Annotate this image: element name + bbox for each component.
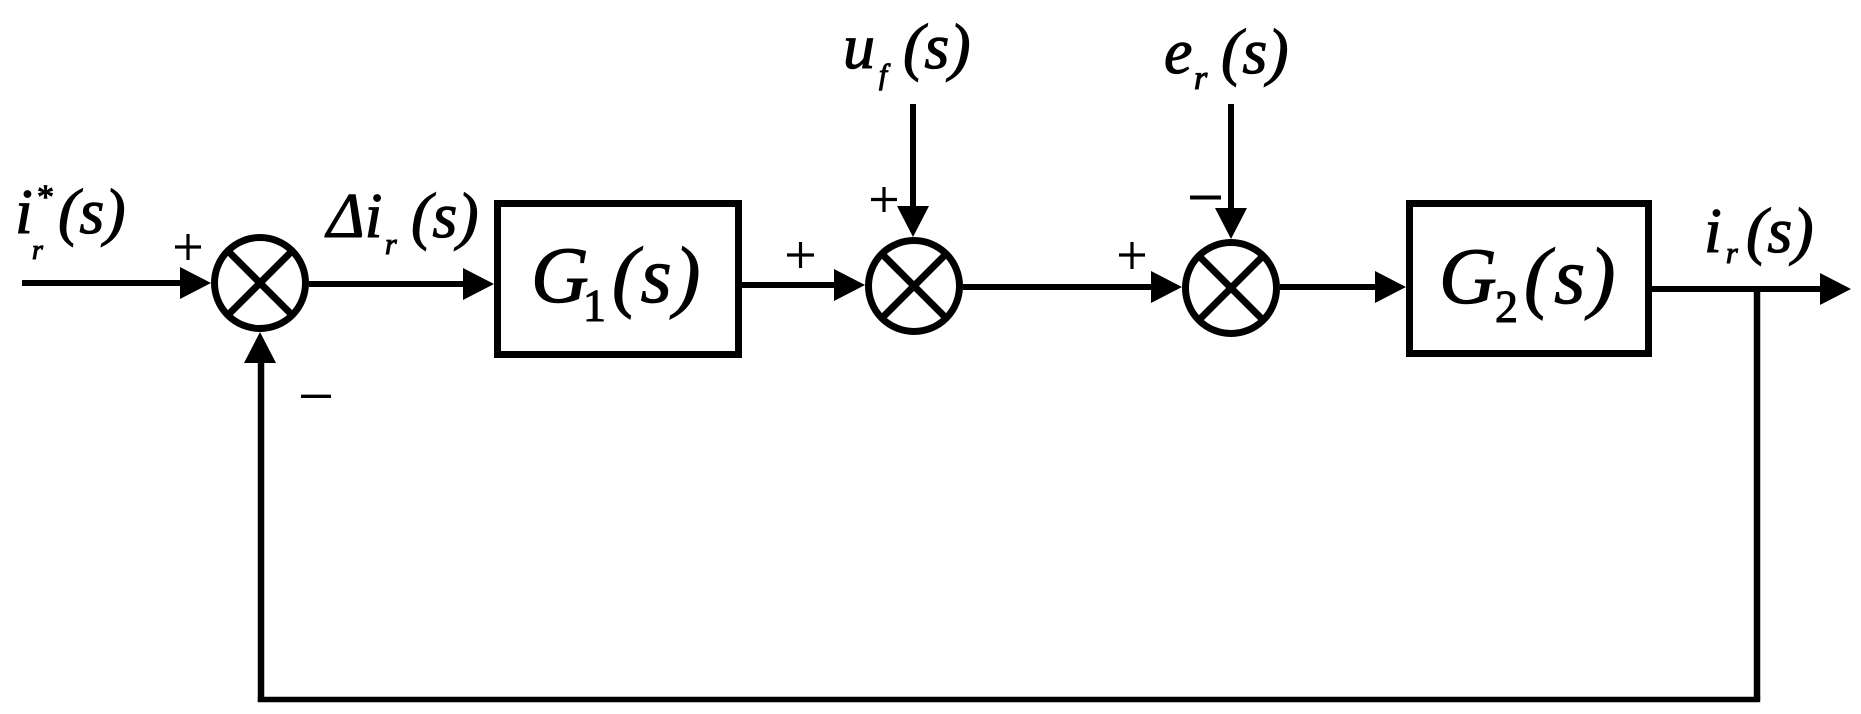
svg-text:(s): (s) xyxy=(1524,233,1619,321)
svg-text:(s): (s) xyxy=(903,11,971,82)
svg-text:u: u xyxy=(843,11,875,82)
arrowhead into summing junction S3 xyxy=(1151,271,1182,303)
svg-text:i: i xyxy=(15,176,33,247)
svg-text:*: * xyxy=(37,179,54,216)
svg-text:(s): (s) xyxy=(612,232,702,320)
svg-text:(s): (s) xyxy=(411,180,479,251)
svg-text:e: e xyxy=(1164,16,1192,87)
arrowhead down into S3 xyxy=(1215,208,1247,239)
minus sign at S3 top input xyxy=(1190,196,1221,200)
wire feedback bottom horizontal xyxy=(258,697,1760,703)
plus sign on wire before S2 xyxy=(787,242,814,268)
svg-text:G: G xyxy=(531,232,589,320)
svg-text:2: 2 xyxy=(1495,281,1518,332)
plus sign on wire before S3 xyxy=(1119,242,1145,269)
svg-text:Δi: Δi xyxy=(324,180,382,251)
svg-text:G: G xyxy=(1439,233,1497,321)
svg-text:r: r xyxy=(385,228,397,261)
svg-text:(s): (s) xyxy=(1221,16,1289,87)
node label e_r(s) disturbance xyxy=(1164,16,1289,97)
node label u_f(s) disturbance xyxy=(843,11,971,91)
wire e_r vertical drop xyxy=(1228,104,1234,210)
svg-text:1: 1 xyxy=(583,280,606,331)
node label i_r*(s) input signal xyxy=(15,176,126,266)
arrowhead into summing junction S1 xyxy=(180,267,211,299)
minus sign at S1 feedback input xyxy=(301,395,331,398)
plus sign at S1 input xyxy=(175,234,201,260)
wire input line xyxy=(22,280,184,286)
plus sign at S2 top input xyxy=(871,187,897,212)
block G2 xyxy=(1410,204,1649,354)
svg-text:(s): (s) xyxy=(58,176,126,247)
svg-text:i: i xyxy=(1704,195,1722,266)
wire G1 to S2 xyxy=(742,282,837,288)
arrowhead into block G1 xyxy=(463,268,494,300)
wire output line xyxy=(1652,286,1822,292)
svg-text:r: r xyxy=(32,235,43,266)
arrowhead up into S1 xyxy=(244,332,276,363)
svg-text:r: r xyxy=(1194,60,1208,97)
arrowhead down into S2 xyxy=(897,206,929,237)
wire S3 to G2 xyxy=(1280,284,1379,290)
wire feedback branch vertical right xyxy=(1754,289,1761,700)
summing junction S2 xyxy=(869,241,960,332)
svg-text:(s): (s) xyxy=(1746,195,1814,266)
wire S1 to G1 xyxy=(309,281,467,287)
wire S2 to S3 xyxy=(963,284,1154,290)
node label i_r(s) output signal xyxy=(1704,195,1814,270)
wire feedback vertical left xyxy=(258,358,265,702)
summing junction S3 xyxy=(1186,243,1277,334)
arrowhead output xyxy=(1820,273,1851,305)
node label delta i_r(s) xyxy=(324,180,479,261)
summing junction S1 xyxy=(215,238,306,329)
arrowhead into block G2 xyxy=(1375,271,1406,303)
arrowhead into summing junction S2 xyxy=(834,269,865,301)
svg-text:r: r xyxy=(1726,237,1738,270)
block G1 xyxy=(498,204,739,355)
wire u_f vertical drop xyxy=(910,104,916,208)
